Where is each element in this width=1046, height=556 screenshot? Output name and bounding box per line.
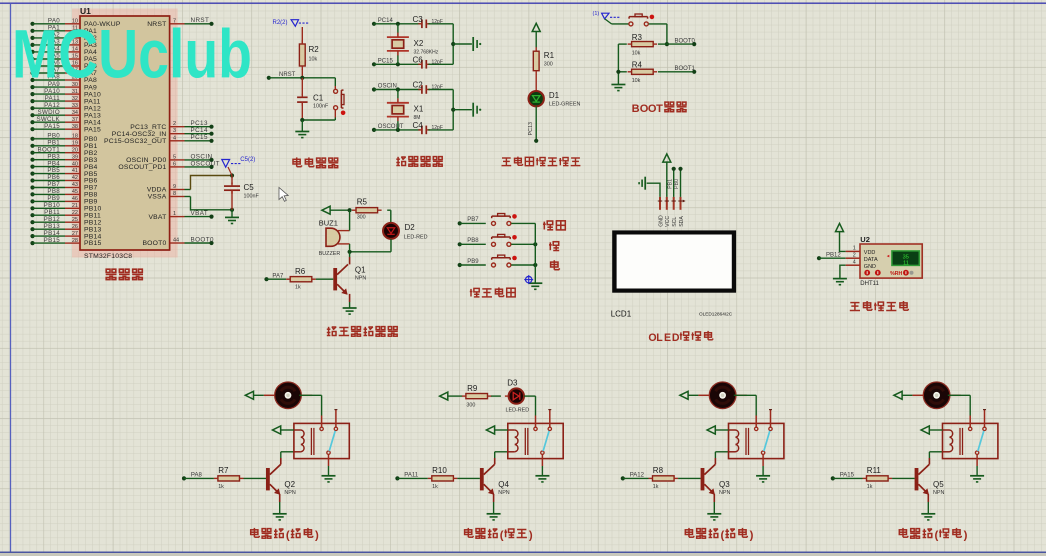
svg-text:PA11: PA11: [45, 95, 61, 102]
svg-text:PC13: PC13: [191, 120, 208, 127]
svg-text:2: 2: [853, 253, 856, 259]
svg-text:40: 40: [72, 161, 78, 167]
svg-text:12pF: 12pF: [432, 19, 443, 25]
svg-text:R8: R8: [653, 466, 664, 475]
svg-text:D3: D3: [507, 379, 518, 388]
svg-text:8M: 8M: [414, 115, 421, 121]
svg-text:1: 1: [173, 211, 176, 217]
svg-text:1k: 1k: [867, 484, 873, 490]
svg-text:X1: X1: [414, 105, 424, 114]
svg-text:PB15: PB15: [44, 237, 61, 244]
svg-text:): ): [964, 530, 968, 542]
svg-text:GND: GND: [658, 215, 664, 227]
svg-text:PB6: PB6: [47, 174, 60, 181]
svg-text:PA12: PA12: [44, 102, 60, 109]
svg-text:10k: 10k: [632, 78, 641, 84]
svg-text:L: L: [656, 332, 663, 344]
svg-text:OLED12864I2C: OLED12864I2C: [699, 311, 733, 316]
svg-text:PB11: PB11: [44, 209, 60, 216]
svg-text:LED-RED: LED-RED: [404, 235, 428, 241]
svg-text:VCC: VCC: [665, 216, 671, 227]
svg-text:Q3: Q3: [719, 480, 730, 489]
svg-text:3: 3: [173, 128, 176, 134]
svg-text:BOOT0: BOOT0: [191, 236, 214, 243]
svg-text:D1: D1: [549, 91, 560, 100]
svg-text:PB7: PB7: [467, 217, 479, 223]
svg-text:12pF: 12pF: [432, 125, 443, 131]
svg-text:PB1: PB1: [84, 143, 97, 150]
svg-text:33: 33: [72, 103, 78, 109]
svg-text:C6: C6: [413, 55, 424, 64]
svg-text:19: 19: [72, 140, 78, 146]
svg-text:20: 20: [72, 147, 78, 153]
svg-text:PC15: PC15: [191, 134, 208, 141]
svg-text:SDA: SDA: [679, 216, 685, 227]
svg-text:12pF: 12pF: [432, 85, 443, 91]
svg-text:LCD1: LCD1: [611, 310, 632, 319]
svg-text:MCUclub: MCUclub: [12, 16, 252, 93]
svg-text:(1): (1): [593, 11, 600, 17]
svg-text:32: 32: [72, 96, 78, 102]
svg-text:32.768KHz: 32.768KHz: [414, 50, 439, 56]
svg-text:PC14: PC14: [191, 127, 208, 134]
svg-text:BOOT1: BOOT1: [675, 66, 696, 72]
svg-text:C2: C2: [413, 81, 424, 90]
svg-text:PB8: PB8: [47, 188, 60, 195]
svg-text:NPN: NPN: [719, 490, 730, 496]
svg-text:GND: GND: [864, 264, 876, 270]
svg-text:R6: R6: [295, 267, 306, 276]
svg-text:Q1: Q1: [355, 266, 366, 275]
svg-text:DHT11: DHT11: [860, 281, 879, 287]
svg-text:PB12: PB12: [84, 219, 101, 226]
svg-text:PC13: PC13: [528, 122, 534, 136]
svg-text:D: D: [672, 332, 680, 344]
svg-text:): ): [315, 530, 319, 542]
svg-text:28: 28: [72, 238, 78, 244]
svg-text:E: E: [664, 332, 671, 344]
svg-text:38: 38: [72, 124, 78, 130]
svg-text:100nF: 100nF: [244, 194, 260, 200]
svg-text:45: 45: [72, 189, 78, 195]
svg-text:OSCIN: OSCIN: [378, 84, 397, 90]
svg-text:41: 41: [72, 168, 78, 174]
svg-text:Q4: Q4: [498, 480, 509, 489]
svg-text:100nF: 100nF: [313, 103, 329, 109]
svg-text:PB15: PB15: [84, 240, 101, 247]
svg-text:NPN: NPN: [933, 490, 944, 496]
svg-text:PA12: PA12: [84, 105, 101, 112]
svg-text:VSSA: VSSA: [148, 194, 167, 201]
svg-text:1k: 1k: [432, 484, 438, 490]
svg-text:1k: 1k: [218, 484, 224, 490]
svg-text:1k: 1k: [653, 484, 659, 490]
svg-text:DATA: DATA: [864, 257, 878, 263]
svg-text:10k: 10k: [309, 57, 318, 63]
svg-text:6: 6: [173, 161, 176, 167]
svg-text:PA13: PA13: [84, 112, 101, 119]
svg-text:PB3: PB3: [47, 153, 60, 160]
svg-text:R3: R3: [632, 33, 643, 42]
svg-text:VDDA: VDDA: [147, 187, 167, 194]
svg-text:11: 11: [903, 261, 909, 267]
svg-text:(: (: [500, 530, 504, 542]
svg-text:21: 21: [72, 203, 78, 209]
svg-text:OSCIN_PD0: OSCIN_PD0: [126, 157, 166, 164]
svg-text:44: 44: [173, 238, 179, 244]
svg-text:PB1: PB1: [667, 179, 673, 189]
svg-text:PC14-OSC32_IN: PC14-OSC32_IN: [112, 131, 167, 138]
svg-text:12pF: 12pF: [432, 60, 443, 66]
svg-text:C5(2): C5(2): [240, 157, 255, 163]
svg-text:R2(2): R2(2): [273, 20, 288, 26]
svg-text:1k: 1k: [295, 285, 301, 291]
svg-text:PC15: PC15: [378, 59, 394, 65]
svg-text:R5: R5: [357, 198, 368, 207]
svg-text:39: 39: [72, 154, 78, 160]
svg-text:22: 22: [72, 210, 78, 216]
svg-text:Q5: Q5: [933, 480, 944, 489]
svg-text:BOOT0: BOOT0: [142, 240, 166, 247]
svg-text:18: 18: [72, 134, 78, 140]
svg-text:PC15-OSC32_OUT: PC15-OSC32_OUT: [104, 138, 166, 145]
svg-text:R11: R11: [867, 466, 882, 475]
svg-text:2: 2: [173, 121, 176, 127]
svg-text:PB14: PB14: [44, 230, 61, 237]
svg-text:R2: R2: [309, 45, 320, 54]
svg-text:PB8: PB8: [467, 238, 479, 244]
svg-text:1: 1: [853, 246, 856, 252]
svg-text:NRST: NRST: [279, 72, 296, 78]
svg-text:PC13_RTC: PC13_RTC: [130, 124, 166, 131]
svg-text:PB1: PB1: [47, 139, 60, 146]
svg-text:35: 35: [903, 254, 909, 260]
svg-text:46: 46: [72, 196, 78, 202]
svg-text:4: 4: [853, 260, 856, 266]
svg-text:NPN: NPN: [284, 490, 295, 496]
svg-text:(: (: [935, 530, 939, 542]
svg-text:300: 300: [544, 62, 553, 68]
svg-text:SWDIO: SWDIO: [38, 109, 60, 116]
svg-text:PB8: PB8: [84, 192, 97, 199]
svg-text:PA15: PA15: [44, 123, 60, 130]
svg-text:STM32F103C8: STM32F103C8: [84, 253, 132, 260]
svg-text:%RH: %RH: [890, 271, 902, 277]
svg-text:OSCOUT_PD1: OSCOUT_PD1: [118, 164, 166, 171]
svg-text:PB12: PB12: [44, 216, 61, 223]
svg-text:PB9: PB9: [467, 259, 479, 265]
svg-text:34: 34: [72, 110, 78, 116]
svg-text:VBAT: VBAT: [191, 210, 209, 217]
svg-text:BOOT0: BOOT0: [675, 38, 696, 44]
svg-text:10k: 10k: [632, 51, 641, 57]
svg-text:42: 42: [72, 175, 78, 181]
svg-text:NPN: NPN: [355, 276, 366, 282]
svg-text:(: (: [721, 530, 725, 542]
svg-text:PB0: PB0: [674, 179, 680, 189]
svg-text:OSCOUT: OSCOUT: [191, 160, 220, 167]
svg-text:): ): [529, 530, 533, 542]
svg-text:OSCIN: OSCIN: [191, 153, 213, 160]
svg-text:26: 26: [72, 224, 78, 230]
svg-text:SCL: SCL: [672, 217, 678, 227]
svg-text:300: 300: [357, 215, 366, 221]
svg-text:X2: X2: [414, 39, 424, 48]
svg-text:SWCLK: SWCLK: [36, 116, 60, 123]
svg-text:LED-GREEN: LED-GREEN: [549, 102, 581, 108]
svg-text:C3: C3: [413, 15, 424, 24]
svg-text:27: 27: [72, 231, 78, 237]
svg-text:(: (: [286, 530, 290, 542]
svg-text:Q2: Q2: [284, 480, 295, 489]
svg-text:PB4: PB4: [84, 164, 97, 171]
svg-text:BUZZER: BUZZER: [319, 251, 341, 257]
svg-text:C5: C5: [244, 183, 255, 192]
svg-text:PB6: PB6: [84, 178, 97, 185]
svg-text:C4: C4: [413, 121, 424, 130]
svg-text:R7: R7: [218, 466, 229, 475]
svg-text:43: 43: [72, 182, 78, 188]
svg-text:VDD: VDD: [864, 250, 876, 256]
svg-text:37: 37: [72, 117, 78, 123]
svg-text:PB5: PB5: [47, 167, 60, 174]
svg-text:5: 5: [173, 154, 176, 160]
svg-text:4: 4: [173, 135, 176, 141]
svg-text:8: 8: [173, 191, 176, 197]
svg-text:BUZ1: BUZ1: [319, 218, 338, 227]
svg-text:U2: U2: [860, 235, 870, 244]
svg-text:PB3: PB3: [84, 157, 97, 164]
svg-text:R9: R9: [467, 384, 478, 393]
svg-text:T: T: [656, 103, 663, 115]
svg-text:9: 9: [173, 184, 176, 190]
svg-text:): ): [750, 530, 754, 542]
svg-text:LED-RED: LED-RED: [506, 408, 530, 414]
svg-text:D2: D2: [405, 223, 416, 232]
svg-text:PB11: PB11: [84, 212, 101, 219]
svg-text:VBAT: VBAT: [148, 214, 166, 221]
svg-text:PA14: PA14: [84, 119, 101, 126]
svg-text:25: 25: [72, 217, 78, 223]
svg-text:PA15: PA15: [84, 126, 101, 133]
svg-text:B: B: [632, 103, 640, 115]
svg-text:R10: R10: [432, 466, 447, 475]
svg-text:PA11: PA11: [84, 98, 100, 105]
svg-text:NPN: NPN: [498, 490, 509, 496]
svg-text:R4: R4: [632, 61, 643, 70]
svg-text:C1: C1: [313, 94, 324, 103]
svg-text:300: 300: [466, 403, 475, 409]
svg-text:R1: R1: [544, 51, 555, 60]
